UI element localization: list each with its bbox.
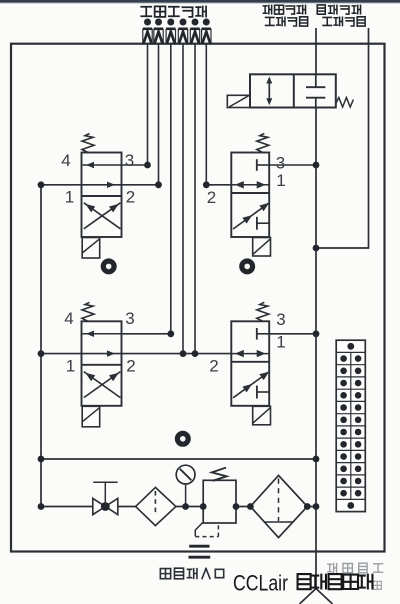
valve V5 flow position: double arrow: [266, 77, 272, 106]
valve V4 lower position diagonal path: [233, 372, 269, 398]
svg-text:2: 2: [209, 357, 218, 376]
valve V4 3/2 body: [231, 321, 269, 406]
valve V1 path 1 to 2 arrow: [107, 182, 115, 188]
junction node J13: [38, 350, 45, 357]
wire: valve V1 port 3 to QC1 pipe: [122, 164, 148, 166]
shut-off valve: [93, 482, 118, 514]
terminal block: [336, 340, 365, 511]
muffler bottom row: [177, 433, 188, 444]
pipe from QC2: [158, 44, 160, 185]
junction node J20: [304, 503, 311, 510]
valve V2 path 2-1 double arrow: [231, 181, 269, 188]
junction node J15: [38, 503, 45, 510]
svg-text:1: 1: [66, 357, 75, 376]
valve V5 solenoid actuator: [227, 95, 250, 107]
label: da ke qi gang / gong zuo qi yuan (left supply): [263, 5, 307, 26]
label: chu lv qi gang / gong zuo qi yuan (right supply): [317, 5, 365, 26]
enclosure frame: [11, 44, 385, 552]
quick coupler QC2: [154, 19, 163, 44]
svg-text:1: 1: [276, 333, 285, 352]
pipe from QC4: [182, 44, 184, 354]
pressure regulator: [203, 468, 236, 523]
pipe from QC6: [205, 44, 207, 185]
valve V2 spring: [257, 134, 269, 153]
junction node J4: [313, 162, 320, 169]
quick coupler QC1: [143, 19, 152, 44]
junction node J2: [155, 181, 162, 188]
svg-text:4: 4: [61, 151, 70, 170]
wire: bus to V3 port1 through valve to valve V4 port 2: [41, 353, 231, 355]
valve V4 path 2-1 double arrow: [231, 350, 269, 357]
gray note second char: [373, 581, 381, 589]
muffler on valve V1: [103, 261, 114, 272]
wire: valve V3 port 3 to QC3 pipe: [122, 333, 171, 335]
air filter: [136, 487, 176, 525]
junction node J7: [313, 456, 320, 463]
valve V1 port label 1: [65, 188, 74, 207]
valve V3 solenoid actuator: [82, 406, 100, 427]
valve V3 crossed position: [84, 372, 121, 398]
quick coupler QC3: [166, 19, 175, 44]
junction node J14: [38, 456, 45, 463]
junction node J3: [203, 181, 210, 188]
valve V4 port label 2: [209, 357, 218, 376]
quick coupler QC5: [190, 19, 199, 44]
valve V3 port label 2: [126, 357, 135, 376]
valve V2 port label 2: [207, 188, 216, 207]
regulator relief drain: [195, 523, 218, 537]
valve V1 path 3 to 4 arrow: [83, 162, 122, 168]
junction node J16: [182, 503, 189, 510]
label: dian yuan xian ru kou (power line entry): [160, 568, 223, 579]
pipe from QC5: [194, 44, 196, 354]
label: qu cao shang qi gang (top cylinders): [141, 6, 206, 17]
valve V1 spring: [82, 134, 94, 153]
svg-text:3: 3: [276, 310, 285, 329]
svg-text:1: 1: [276, 171, 285, 190]
valve V4 port label 1: [276, 333, 285, 352]
valve V3 path 1 to 2 arrow: [107, 350, 115, 356]
valve V5 blocked position: two plugged ports: [306, 74, 325, 107]
svg-text:CCLair: CCLair: [233, 571, 288, 596]
valve V1 4/2 body: [82, 153, 122, 238]
valve V3 spring: [82, 302, 94, 321]
valve V4 solenoid actuator: [253, 406, 271, 425]
valve V1 crossed position: [84, 203, 121, 229]
valve V4 spring: [257, 302, 269, 321]
left bus wire: [40, 185, 42, 507]
junction node J1: [144, 162, 151, 169]
svg-text:1: 1: [65, 188, 74, 207]
valve V1 port label 2: [126, 188, 135, 207]
supply pipe below frame with arrow to workshop main: [300, 552, 333, 604]
supply line: aluminium-tapping cylinder working air: [316, 28, 369, 248]
valve V3 port label 3: [125, 309, 134, 328]
junction node J12: [38, 181, 45, 188]
junction node J6: [313, 330, 320, 337]
gray note: jie dian jie che (to electrolysis workshop): [328, 563, 383, 573]
supply line: shell-breaking cylinder working air (vertical main): [315, 28, 317, 552]
lubricator: [250, 475, 307, 537]
power line entry marks: [189, 546, 211, 557]
pressure gauge: [176, 465, 195, 506]
watermark chang lin zi dong hua: [298, 574, 373, 589]
scan dark bar top edge: [0, 0, 400, 4]
pipe from QC3: [170, 44, 172, 334]
junction node J9: [167, 330, 174, 337]
valve V3 path 3 to 4 arrow: [83, 331, 122, 337]
valve V1 solenoid actuator: [82, 238, 100, 259]
valve V2 port label 3: [276, 154, 285, 173]
valve V3 4/2 body: [82, 321, 122, 406]
valve V5 2/2 solenoid valve body: [250, 74, 336, 107]
svg-text:2: 2: [126, 188, 135, 207]
valve V2 plugged port 3: [257, 159, 269, 171]
junction node J18: [233, 503, 240, 510]
valve V4 port label 3: [276, 310, 285, 329]
valve V1 port label 4: [61, 151, 70, 170]
wire: QC6 pipe junction to valve V2 port 2: [206, 184, 231, 186]
svg-text:3: 3: [125, 309, 134, 328]
junction node J17: [200, 503, 207, 510]
valve V2 lower position diagonal path: [233, 203, 269, 229]
wire: bus to V1 port1 through valve to QC2 pipe: [41, 184, 159, 186]
valve V3 port label 1: [66, 357, 75, 376]
valve V3 port label 4: [64, 309, 73, 328]
quick coupler QC4: [178, 19, 187, 44]
junction node J10: [180, 350, 187, 357]
pipe from QC1: [147, 44, 149, 165]
junction node J11: [192, 350, 199, 357]
svg-text:2: 2: [207, 188, 216, 207]
wire: lower distribution bus: [41, 458, 316, 460]
svg-text:3: 3: [276, 154, 285, 173]
quick coupler QC6: [202, 19, 211, 44]
muffler on valve V2: [242, 261, 253, 272]
svg-text:4: 4: [64, 309, 73, 328]
valve V2 port label 1: [276, 171, 285, 190]
valve V2 lower plugged port: [257, 217, 269, 230]
valve V1 port label 3: [125, 151, 134, 170]
watermark CCLair: [233, 571, 288, 596]
svg-text:3: 3: [125, 151, 134, 170]
wire: FRL service line: [41, 506, 316, 508]
svg-text:2: 2: [126, 357, 135, 376]
wire: valve V2 port 3 to supply main: [269, 164, 316, 166]
valve V4 plugged port 3: [257, 328, 269, 340]
valve V5 return spring: [336, 98, 354, 108]
valve V2 solenoid actuator: [253, 238, 271, 257]
junction node J19: [247, 503, 254, 510]
junction node J5: [313, 245, 320, 252]
valve V4 lower plugged port: [257, 386, 269, 399]
wire: valve V4 port 3 to supply main: [269, 333, 316, 335]
valve V2 3/2 body: [231, 153, 269, 238]
junction node J8: [313, 503, 320, 510]
